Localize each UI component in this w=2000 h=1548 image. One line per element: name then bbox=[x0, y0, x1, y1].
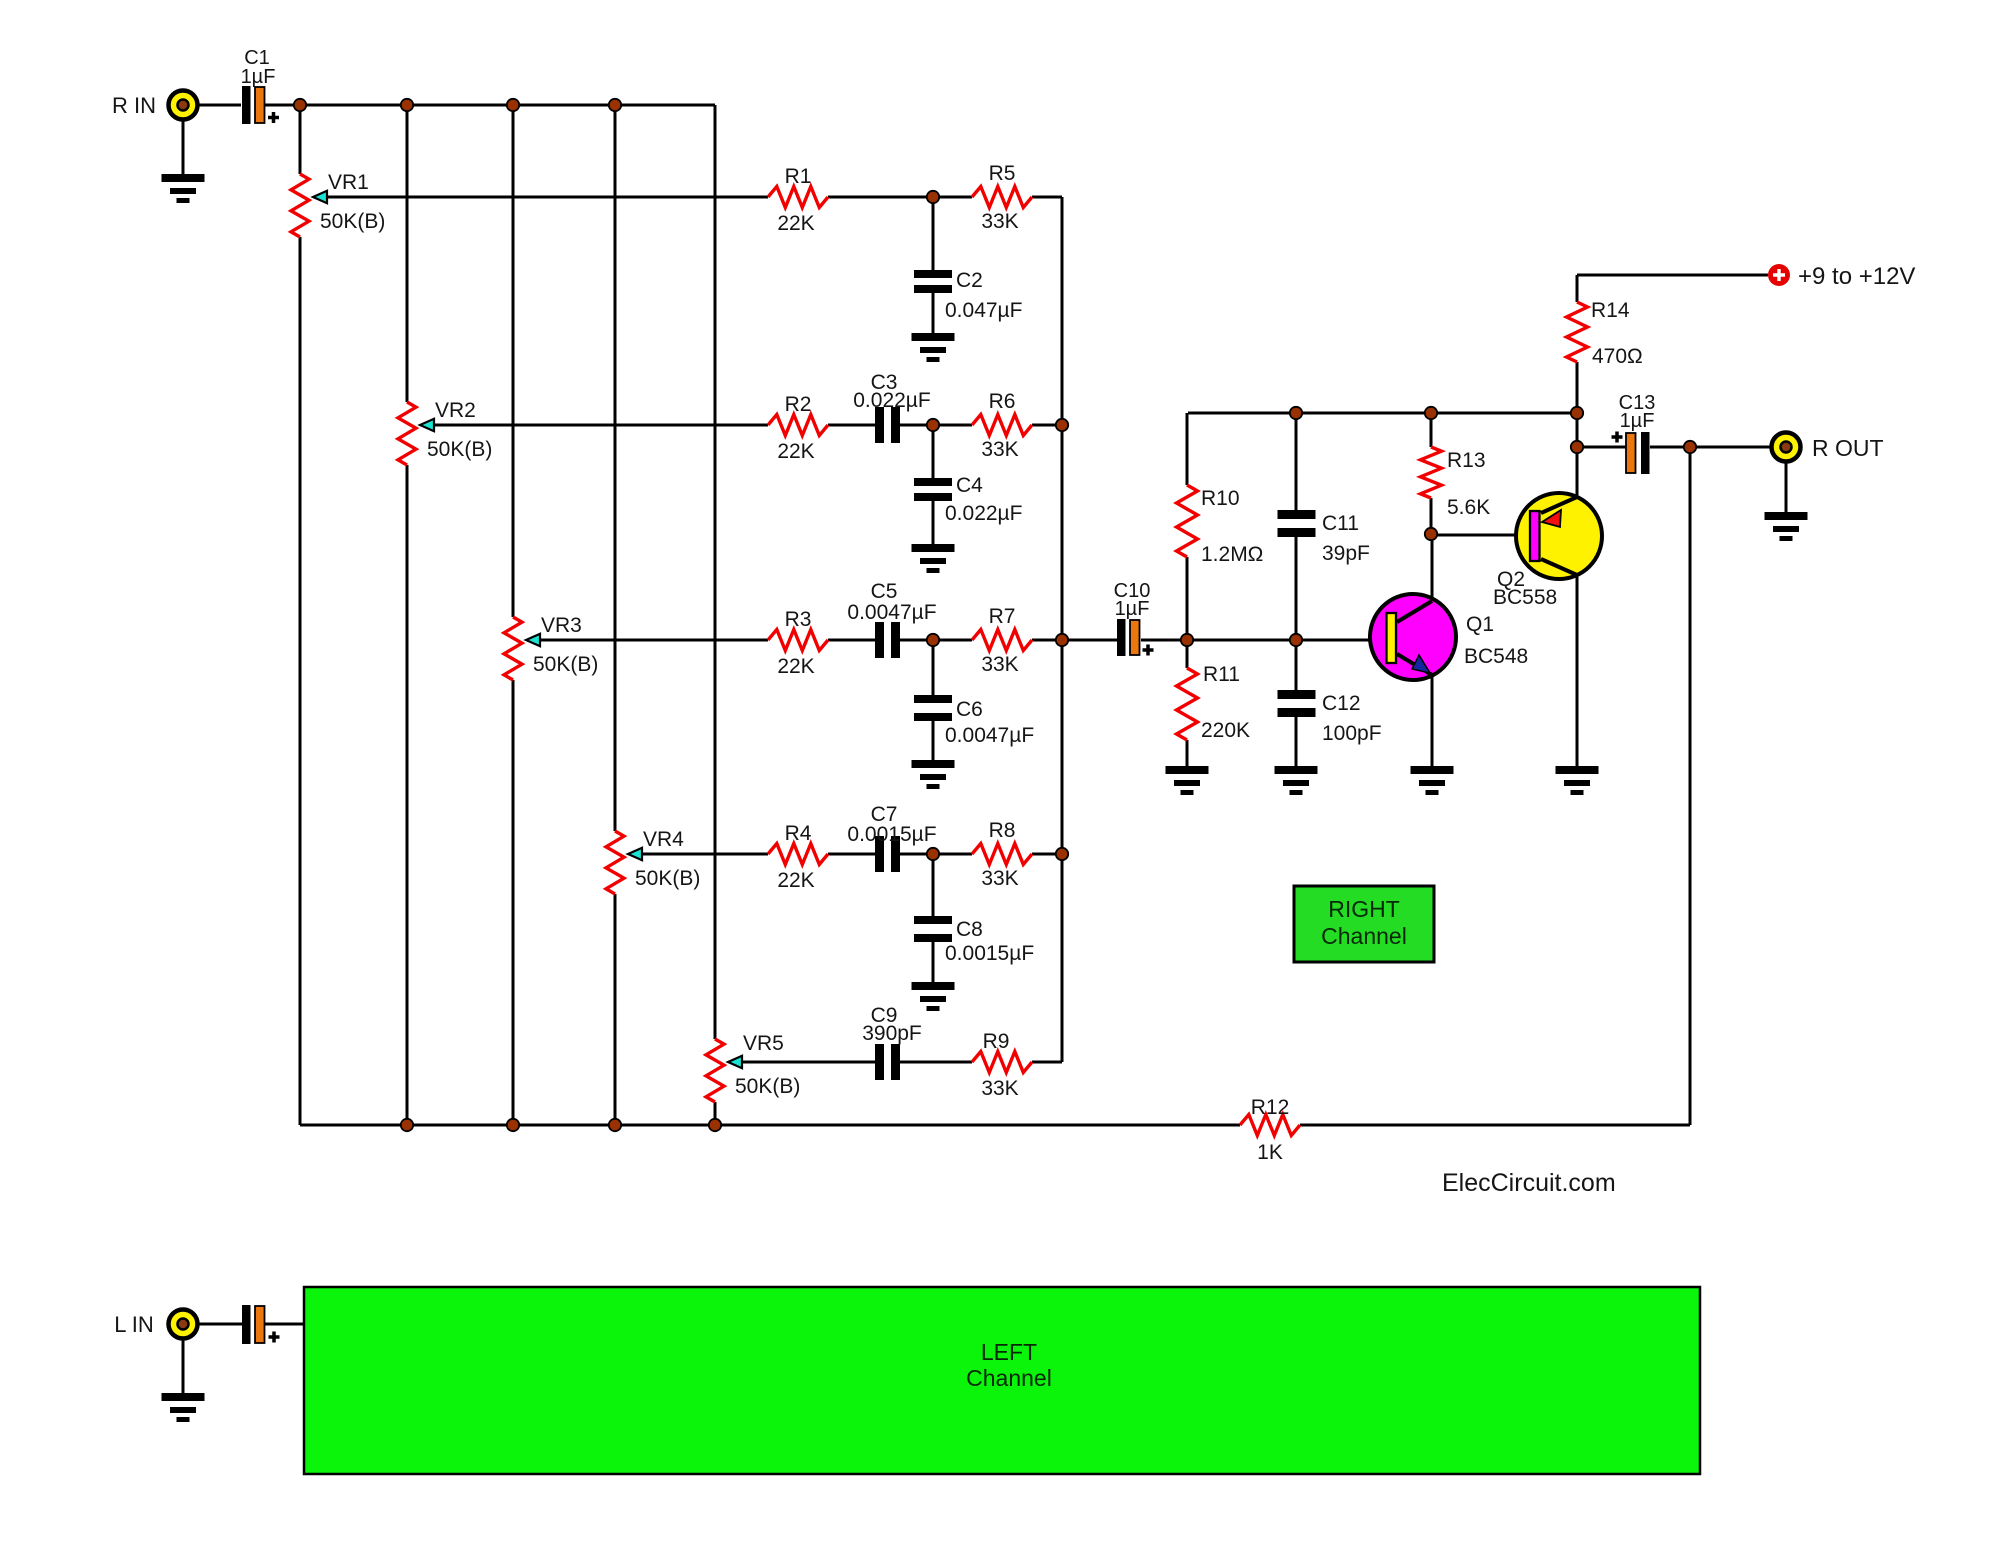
svg-text:R3: R3 bbox=[785, 608, 812, 631]
svg-text:R14: R14 bbox=[1591, 299, 1630, 322]
svg-text:100pF: 100pF bbox=[1322, 722, 1382, 745]
wire L IN ground stem bbox=[182, 1338, 185, 1393]
node junction 15 bbox=[1425, 407, 1437, 419]
ground R11 bbox=[1166, 766, 1209, 795]
svg-text:Channel: Channel bbox=[966, 1365, 1052, 1391]
svg-text:C4: C4 bbox=[956, 474, 983, 497]
svg-text:VR1: VR1 bbox=[328, 171, 369, 194]
wire C11 stems bbox=[1295, 413, 1298, 690]
svg-text:BC548: BC548 bbox=[1464, 645, 1528, 668]
svg-text:R5: R5 bbox=[989, 162, 1016, 185]
svg-text:R12: R12 bbox=[1251, 1096, 1290, 1119]
LEFT Channel block bbox=[304, 1287, 1700, 1474]
svg-text:0.0047µF: 0.0047µF bbox=[847, 601, 936, 624]
svg-text:220K: 220K bbox=[1201, 719, 1250, 742]
svg-text:L IN: L IN bbox=[114, 1312, 154, 1337]
svg-text:1µF: 1µF bbox=[1115, 598, 1150, 620]
svg-text:33K: 33K bbox=[981, 653, 1018, 676]
svg-text:0.0015µF: 0.0015µF bbox=[847, 823, 936, 846]
svg-text:R8: R8 bbox=[989, 819, 1016, 842]
wire Q1 collector bbox=[1397, 534, 1432, 622]
node junction 12 bbox=[1181, 634, 1193, 646]
connector R IN jack bbox=[169, 91, 198, 120]
capacitor C5 0.0047µF bbox=[847, 580, 936, 658]
svg-text:R9: R9 bbox=[983, 1030, 1010, 1053]
resistor R3 22K bbox=[768, 608, 828, 678]
wire row5 band bbox=[742, 1061, 1062, 1064]
svg-text:0.022µF: 0.022µF bbox=[945, 502, 1022, 525]
transistor Q2 BC558 bbox=[1493, 493, 1602, 609]
wire row3 band bbox=[539, 639, 1386, 642]
svg-text:C8: C8 bbox=[956, 918, 983, 941]
wire right summing bus bbox=[1061, 197, 1064, 1062]
svg-text:LEFT: LEFT bbox=[981, 1339, 1037, 1365]
resistor R14 470 bbox=[1567, 299, 1643, 368]
svg-text:22K: 22K bbox=[777, 655, 814, 678]
svg-text:0.0015µF: 0.0015µF bbox=[945, 942, 1034, 965]
capacitor C3 0.022µF bbox=[853, 371, 930, 443]
wire Q2 base link bbox=[1431, 534, 1530, 537]
svg-text:R2: R2 bbox=[785, 393, 812, 416]
resistor R4 22K bbox=[768, 822, 828, 892]
capacitor C8 0.0015µF bbox=[914, 854, 1034, 982]
wire L IN links bbox=[198, 1323, 304, 1326]
node junction 5 bbox=[927, 191, 939, 203]
node junction 1 bbox=[294, 99, 306, 111]
node junction 23 bbox=[709, 1119, 721, 1131]
capacitor C10 1uF bbox=[1114, 580, 1154, 656]
node junction 13 bbox=[1290, 634, 1302, 646]
node junction 20 bbox=[401, 1119, 413, 1131]
wire amp top rail bbox=[1188, 412, 1577, 415]
svg-text:ElecCircuit.com: ElecCircuit.com bbox=[1442, 1169, 1616, 1197]
svg-text:VR4: VR4 bbox=[643, 828, 684, 851]
resistor R13 5.6K bbox=[1421, 447, 1491, 519]
wire Q2 emitter riser bbox=[1541, 413, 1577, 513]
wire input rail bbox=[198, 104, 715, 107]
svg-text:R11: R11 bbox=[1203, 663, 1240, 686]
node junction 9 bbox=[1056, 419, 1068, 431]
svg-text:33K: 33K bbox=[981, 210, 1018, 233]
svg-text:R1: R1 bbox=[785, 165, 812, 188]
node junction 4 bbox=[609, 99, 621, 111]
node junction 19 bbox=[1684, 441, 1696, 453]
svg-text:5.6K: 5.6K bbox=[1447, 496, 1490, 519]
svg-text:RIGHT: RIGHT bbox=[1328, 896, 1400, 922]
capacitor C6 0.0047µF bbox=[914, 640, 1034, 760]
svg-text:50K(B): 50K(B) bbox=[735, 1075, 800, 1098]
svg-text:C12: C12 bbox=[1322, 692, 1361, 715]
svg-text:33K: 33K bbox=[981, 438, 1018, 461]
wire row1 band bbox=[327, 196, 1062, 199]
svg-text:0.022µF: 0.022µF bbox=[853, 389, 930, 412]
capacitor C13 1uF bbox=[1612, 392, 1656, 474]
potentiometer VR1 50K(B) bbox=[291, 171, 385, 237]
svg-text:50K(B): 50K(B) bbox=[427, 438, 492, 461]
wire Q2 collector drop bbox=[1541, 559, 1577, 766]
svg-text:R13: R13 bbox=[1447, 449, 1486, 472]
svg-text:22K: 22K bbox=[777, 440, 814, 463]
wire VR1 top drop bbox=[299, 105, 302, 174]
capacitor C9 390pF bbox=[862, 1004, 922, 1080]
svg-text:C5: C5 bbox=[871, 580, 898, 603]
svg-text:1.2MΩ: 1.2MΩ bbox=[1201, 543, 1263, 566]
ground R IN bbox=[162, 174, 205, 203]
svg-text:VR2: VR2 bbox=[435, 399, 476, 422]
capacitor C11 39pF bbox=[1278, 510, 1370, 565]
resistor R5 33K bbox=[972, 162, 1032, 233]
resistor R8 33K bbox=[972, 819, 1032, 890]
svg-text:50K(B): 50K(B) bbox=[635, 867, 700, 890]
resistor R11 220K bbox=[1177, 663, 1251, 742]
node junction 18 bbox=[1571, 441, 1583, 453]
svg-text:1µF: 1µF bbox=[241, 66, 276, 88]
wire R13 stems bbox=[1430, 413, 1433, 534]
ground under C8 bbox=[912, 982, 955, 1011]
power terminal +9 to +12V bbox=[1768, 263, 1915, 290]
ground under C4 bbox=[912, 544, 955, 573]
potentiometer VR5 50K(B) bbox=[706, 1032, 800, 1102]
svg-text:VR5: VR5 bbox=[743, 1032, 784, 1055]
transistor Q1 BC548 bbox=[1370, 594, 1528, 680]
svg-text:22K: 22K bbox=[777, 212, 814, 235]
wire output feedback vertical bbox=[1689, 447, 1692, 1125]
wire R OUT ground stem bbox=[1785, 461, 1788, 512]
wire VR5 top drop bbox=[714, 105, 717, 1039]
svg-text:33K: 33K bbox=[981, 1077, 1018, 1100]
ground Q2 collector bbox=[1556, 766, 1599, 795]
svg-text:39pF: 39pF bbox=[1322, 542, 1370, 565]
svg-text:22K: 22K bbox=[777, 869, 814, 892]
svg-text:C11: C11 bbox=[1322, 512, 1359, 535]
node junction 17 bbox=[1425, 528, 1437, 540]
capacitor C7 0.0015µF bbox=[847, 803, 936, 872]
node junction 16 bbox=[1571, 407, 1583, 419]
wire VR bottom drops bbox=[300, 237, 715, 1125]
wire supply rail bbox=[1577, 274, 1768, 277]
svg-text:BC558: BC558 bbox=[1493, 586, 1557, 609]
node junction 22 bbox=[609, 1119, 621, 1131]
svg-text:0.0047µF: 0.0047µF bbox=[945, 724, 1034, 747]
svg-text:Q1: Q1 bbox=[1466, 613, 1494, 636]
node junction 21 bbox=[507, 1119, 519, 1131]
connector L IN jack bbox=[169, 1310, 198, 1339]
svg-text:R6: R6 bbox=[989, 390, 1016, 413]
svg-text:R7: R7 bbox=[989, 605, 1016, 628]
capacitor C-LIN 1uF bbox=[242, 1305, 280, 1344]
wire VR3 top drop bbox=[512, 105, 515, 617]
svg-text:390pF: 390pF bbox=[862, 1022, 922, 1045]
capacitor C2 0.047µF bbox=[914, 197, 1022, 333]
node junction 14 bbox=[1290, 407, 1302, 419]
svg-text:R OUT: R OUT bbox=[1812, 435, 1884, 461]
node junction 11 bbox=[1056, 848, 1068, 860]
wire R10 stems bbox=[1186, 413, 1189, 668]
resistor R7 33K bbox=[972, 605, 1032, 676]
node junction 6 bbox=[927, 419, 939, 431]
svg-text:C2: C2 bbox=[956, 269, 983, 292]
svg-text:50K(B): 50K(B) bbox=[320, 210, 385, 233]
node junction 2 bbox=[401, 99, 413, 111]
svg-text:Channel: Channel bbox=[1321, 923, 1407, 949]
wire VR2 top drop bbox=[406, 105, 409, 402]
resistor R9 33K bbox=[972, 1030, 1032, 1100]
wire Q1 emitter bbox=[1397, 654, 1432, 766]
ground R OUT bbox=[1765, 512, 1808, 541]
connector R OUT jack bbox=[1772, 433, 1801, 462]
resistor R12 1K bbox=[1240, 1096, 1300, 1164]
svg-text:R IN: R IN bbox=[112, 93, 156, 118]
svg-text:0.047µF: 0.047µF bbox=[945, 299, 1022, 322]
node junction 8 bbox=[927, 848, 939, 860]
node junction 7 bbox=[927, 634, 939, 646]
svg-text:VR3: VR3 bbox=[541, 614, 582, 637]
node junction 3 bbox=[507, 99, 519, 111]
svg-text:+9 to +12V: +9 to +12V bbox=[1798, 263, 1915, 290]
resistor R10 1.2M bbox=[1177, 485, 1264, 566]
svg-text:C6: C6 bbox=[956, 698, 983, 721]
wire bottom feedback bus bbox=[300, 1124, 1690, 1127]
RIGHT Channel block bbox=[1294, 886, 1434, 962]
potentiometer VR3 50K(B) bbox=[504, 614, 598, 680]
resistor R1 22K bbox=[768, 165, 828, 235]
resistor R6 33K bbox=[972, 390, 1032, 461]
svg-text:470Ω: 470Ω bbox=[1592, 345, 1643, 368]
wire R11 lower stem bbox=[1186, 740, 1189, 766]
capacitor C4 0.022µF bbox=[914, 425, 1022, 544]
potentiometer VR2 50K(B) bbox=[398, 399, 492, 465]
ground L IN bbox=[162, 1393, 205, 1422]
potentiometer VR4 50K(B) bbox=[606, 828, 700, 894]
ground Q1 emitter bbox=[1411, 766, 1454, 795]
capacitor C1 1uF bbox=[241, 47, 279, 124]
ground C12 bbox=[1275, 766, 1318, 795]
wire VR4 top drop bbox=[614, 105, 617, 831]
svg-text:33K: 33K bbox=[981, 867, 1018, 890]
svg-text:50K(B): 50K(B) bbox=[533, 653, 598, 676]
ground under C2 bbox=[912, 333, 955, 362]
capacitor C12 100pF bbox=[1278, 690, 1382, 745]
svg-text:R4: R4 bbox=[785, 822, 812, 845]
svg-text:1K: 1K bbox=[1257, 1141, 1283, 1164]
wire C13 links bbox=[1577, 446, 1772, 449]
node junction 10 bbox=[1056, 634, 1068, 646]
svg-text:R10: R10 bbox=[1201, 487, 1240, 510]
ground under C6 bbox=[912, 760, 955, 789]
wire R IN ground stem bbox=[182, 119, 185, 174]
wire C12 lower stem bbox=[1295, 717, 1298, 766]
wire row4 band bbox=[642, 853, 1062, 856]
resistor R2 22K bbox=[768, 393, 828, 463]
wire R14 stems bbox=[1576, 275, 1579, 413]
wire row2 band bbox=[433, 424, 1062, 427]
svg-text:1µF: 1µF bbox=[1620, 410, 1655, 432]
